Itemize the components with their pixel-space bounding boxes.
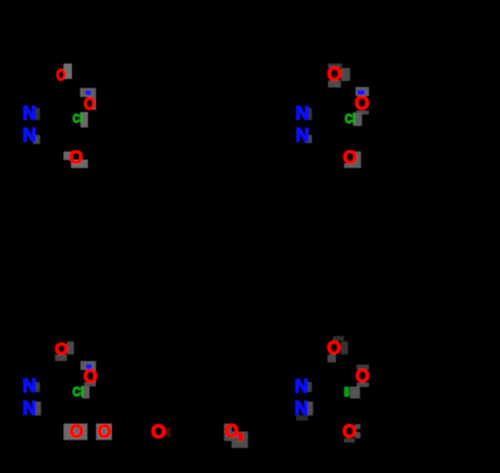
svg-text:N: N [296, 104, 310, 125]
label box O12 above [357, 365, 370, 370]
label box O4 right [341, 68, 350, 81]
label box O7 below [55, 355, 67, 362]
svg-text:O: O [69, 422, 83, 442]
label box O11 below [328, 355, 337, 363]
svg-text:N: N [295, 399, 309, 420]
label box N+ dash [356, 87, 370, 96]
label smudge N1 side [35, 108, 40, 120]
atom Cl4 partial [344, 387, 350, 398]
label box O10 [96, 424, 112, 441]
label box N2 side [33, 135, 40, 144]
label smudge above O4 [328, 64, 342, 69]
label box Cl1 [81, 112, 89, 128]
svg-text:N: N [23, 399, 37, 420]
label smudge N7 side [307, 382, 312, 392]
svg-text:O: O [84, 94, 96, 114]
label box Cl4 [350, 387, 360, 399]
label box O13 below [344, 439, 355, 443]
svg-text:O: O [69, 148, 83, 168]
label smudge above O11 [333, 336, 344, 341]
label box O4 below [328, 81, 341, 88]
svg-text:O: O [55, 340, 68, 359]
svg-text:O: O [327, 65, 342, 86]
svg-text:N: N [23, 126, 37, 147]
svg-text:O: O [342, 422, 356, 442]
subscript 2 of O15 [238, 433, 244, 442]
svg-text:N: N [23, 104, 37, 125]
svg-text:O: O [151, 422, 166, 443]
svg-text:O: O [327, 338, 341, 358]
label smudge N3 side [307, 108, 312, 120]
label box O8 right [93, 370, 96, 383]
charge dash N3 [358, 90, 365, 95]
label box O13 right2 [355, 432, 361, 439]
label box O12 below [357, 383, 370, 388]
label box Cl2 [353, 113, 362, 127]
svg-text:O: O [343, 148, 357, 168]
label box O13 right [355, 424, 361, 429]
label box O11 right [341, 342, 348, 355]
charge dot N1 [86, 91, 92, 96]
label smudge N5 side [35, 382, 40, 392]
svg-text:O: O [355, 94, 370, 115]
label box O9 [64, 424, 88, 441]
label smudge below N8 [296, 416, 308, 421]
label box N6 side [34, 402, 41, 416]
label box O6 [354, 152, 362, 169]
label box O5 below [356, 111, 369, 115]
svg-text:O: O [355, 366, 369, 386]
label box O15 right [232, 432, 249, 449]
label box N+ dot [80, 88, 96, 97]
label box O8 below [84, 383, 96, 387]
label box O7 right [67, 342, 74, 355]
svg-text:N: N [295, 377, 309, 398]
svg-text:Cl: Cl [73, 112, 83, 126]
svg-text:O: O [224, 421, 238, 441]
label box O3 right [71, 160, 88, 169]
label box O6 below [344, 164, 354, 169]
label box O2 [93, 97, 97, 110]
svg-text:N: N [296, 126, 310, 147]
bond stub O14 [166, 428, 171, 437]
svg-text:Cl: Cl [73, 384, 84, 399]
label box N4 side [305, 135, 312, 143]
charge dot N5 [86, 364, 92, 369]
svg-text:O: O [83, 367, 97, 387]
label box O15 left [224, 424, 232, 442]
label box O3 left [64, 152, 71, 161]
label box O1 [64, 64, 73, 80]
label box N+ dot2 [81, 361, 97, 370]
svg-text:Cl: Cl [345, 111, 356, 126]
svg-text:O: O [97, 422, 111, 442]
svg-text:N: N [23, 376, 37, 397]
label box Cl3 [82, 386, 90, 399]
svg-text:O: O [56, 67, 66, 85]
label box N8 side [307, 402, 314, 416]
